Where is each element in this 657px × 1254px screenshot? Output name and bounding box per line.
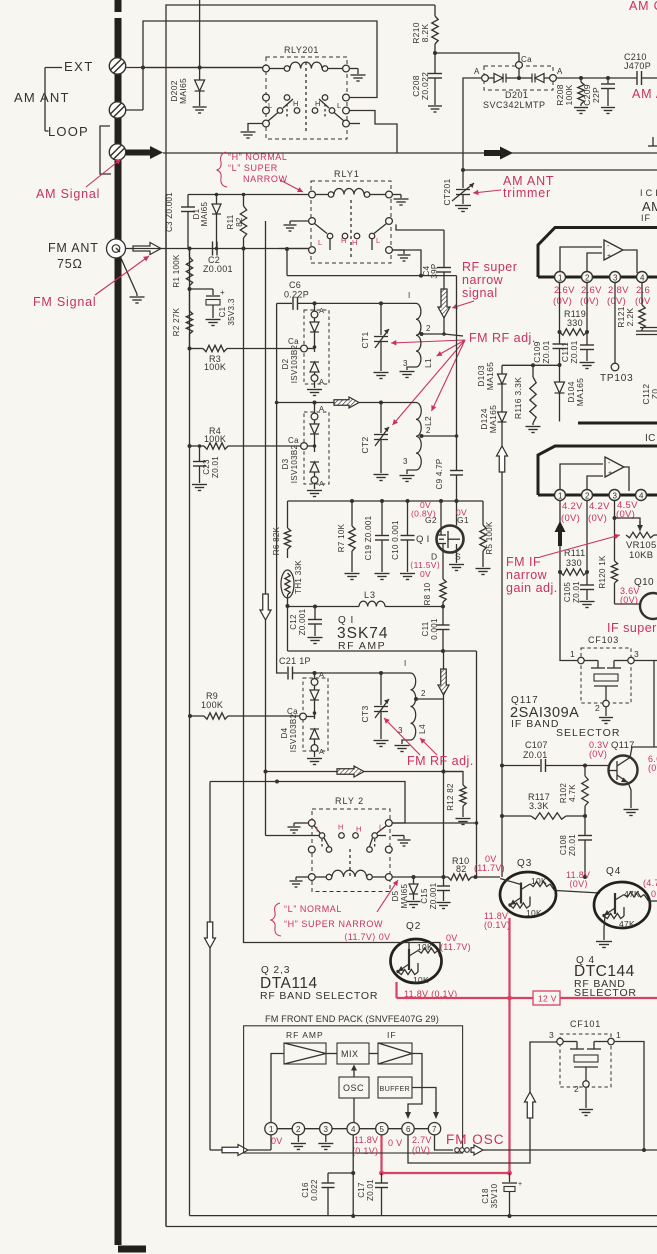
svg-text:(0V): (0V) bbox=[553, 296, 572, 307]
relay RLY201 left ground bbox=[248, 124, 263, 132]
wire C21 feed bbox=[277, 403, 287, 674]
svg-text:D3: D3 bbox=[281, 458, 290, 469]
svg-text:11.8V: 11.8V bbox=[354, 1135, 378, 1145]
relay RLY201 coil bbox=[263, 65, 270, 72]
AM signal thick arrow bbox=[126, 146, 163, 159]
wire EXT feed y=21 bbox=[143, 21, 377, 110]
FM OSC marker bbox=[455, 1148, 460, 1153]
svg-text:RF AMP: RF AMP bbox=[286, 1030, 324, 1040]
svg-text:5: 5 bbox=[380, 1125, 385, 1134]
svg-text:10KB: 10KB bbox=[629, 550, 653, 561]
FE pin 4 bbox=[347, 1123, 359, 1135]
red pointer CT3 bbox=[384, 718, 420, 755]
svg-text:FM ANT: FM ANT bbox=[48, 241, 99, 255]
svg-text:2: 2 bbox=[426, 324, 431, 333]
svg-text:8.2K: 8.2K bbox=[420, 24, 430, 43]
svg-text:100K: 100K bbox=[204, 362, 226, 372]
wire band select bus bbox=[244, 249, 441, 952]
junction R10 right bbox=[474, 875, 478, 879]
svg-text:IC: IC bbox=[645, 433, 656, 444]
FE pin 2 bbox=[292, 1123, 304, 1135]
red wire bottom run bbox=[382, 1172, 510, 1174]
svg-text:(0V): (0V) bbox=[412, 1145, 430, 1155]
junction R1/R2 bbox=[188, 287, 192, 291]
wire C4 to L1 tap bbox=[443, 318, 445, 334]
svg-text:10K: 10K bbox=[413, 975, 429, 985]
svg-text:RLY201: RLY201 bbox=[284, 45, 319, 55]
wire IF line down bbox=[501, 446, 503, 877]
svg-text:3: 3 bbox=[324, 1125, 329, 1134]
FE pin 6 bbox=[402, 1123, 414, 1135]
junction R111 right bbox=[585, 570, 589, 574]
wire pin1 to RF amp bbox=[271, 1054, 284, 1123]
varactor D2 box bbox=[304, 310, 329, 384]
junction G1/C9 bbox=[455, 499, 459, 503]
coil right edge (clipped) bbox=[636, 330, 657, 332]
potentiometer VR105 bbox=[626, 532, 654, 538]
svg-text:AM Signal: AM Signal bbox=[36, 187, 100, 201]
svg-text:L: L bbox=[376, 236, 380, 245]
svg-text:D4: D4 bbox=[280, 727, 289, 738]
svg-text:L: L bbox=[316, 825, 320, 834]
svg-text:7: 7 bbox=[432, 1125, 437, 1134]
resistor R210 bbox=[434, 5, 436, 16]
svg-text:CF103: CF103 bbox=[588, 635, 619, 645]
svg-text:2: 2 bbox=[426, 426, 431, 435]
trimmer CT1 bbox=[380, 303, 382, 335]
junction C19 top bbox=[380, 499, 384, 503]
resistor R208 bbox=[580, 78, 582, 82]
inductor L1 bbox=[416, 303, 421, 367]
wire C6 to L1 bbox=[298, 302, 416, 304]
svg-text:Z0.01: Z0.01 bbox=[523, 750, 548, 760]
wire x188 upper bbox=[189, 249, 191, 447]
inductor L4 ground bbox=[402, 740, 411, 744]
inductor L1 ground bbox=[407, 367, 416, 370]
svg-text:0 V: 0 V bbox=[388, 1138, 402, 1148]
IC102 opamp bbox=[560, 464, 603, 490]
IC102 pin 1 bbox=[555, 490, 566, 501]
FM signal outlined arrow bbox=[133, 243, 161, 255]
svg-text:(0V): (0V) bbox=[588, 513, 607, 524]
varactor D3 bbox=[311, 413, 318, 420]
wire MIX to IF bbox=[369, 1053, 378, 1055]
svg-text:Q4: Q4 bbox=[606, 866, 621, 877]
svg-text:4: 4 bbox=[351, 1125, 356, 1134]
svg-text:IF: IF bbox=[641, 213, 651, 223]
svg-text:0.001: 0.001 bbox=[430, 618, 439, 640]
terminal LOOP bbox=[109, 144, 125, 160]
wire R4 bbox=[188, 444, 192, 448]
capacitor C6 bbox=[292, 297, 294, 310]
resistor R120 bbox=[614, 518, 616, 561]
wire FM line bbox=[126, 248, 312, 250]
svg-text:C9 4.7P: C9 4.7P bbox=[435, 458, 444, 489]
svg-text:2: 2 bbox=[296, 1125, 301, 1134]
trimmer CT201 bbox=[462, 170, 464, 188]
junction CT201 node bbox=[461, 168, 465, 172]
svg-text:H: H bbox=[356, 825, 362, 834]
wire VR105 link bbox=[615, 518, 641, 528]
capacitor C107 bbox=[540, 759, 542, 772]
svg-text:I C I: I C I bbox=[640, 188, 657, 198]
svg-text:C1: C1 bbox=[218, 306, 227, 317]
varactor D4 box bbox=[303, 678, 328, 751]
varactor D4 ground bbox=[314, 751, 316, 757]
svg-text:(0V: (0V bbox=[648, 763, 657, 773]
trimmer CT2 bbox=[380, 403, 382, 434]
junction L2 tap bbox=[420, 434, 424, 438]
red wire 12V bus bbox=[397, 997, 657, 999]
wire into pin1 bbox=[210, 1149, 222, 1151]
capacitor C15 bbox=[443, 877, 445, 886]
wire CF103-3 right bbox=[634, 660, 657, 662]
svg-text:10K: 10K bbox=[417, 942, 433, 952]
junction R208 top bbox=[579, 76, 583, 80]
svg-text:2: 2 bbox=[574, 1084, 579, 1094]
svg-text:C23: C23 bbox=[202, 459, 211, 475]
relay RLY201 link line bbox=[305, 62, 307, 134]
IC101 opamp bbox=[560, 247, 602, 272]
svg-text:+: + bbox=[518, 1181, 522, 1188]
svg-text:NARROW: NARROW bbox=[243, 174, 288, 184]
svg-text:IF BAND: IF BAND bbox=[511, 718, 559, 730]
svg-text:100K: 100K bbox=[204, 434, 226, 444]
wire IC101 pin3 down bbox=[614, 283, 616, 364]
capacitor C208 bbox=[434, 53, 436, 73]
svg-text:AM AN: AM AN bbox=[632, 87, 657, 101]
resistor R8 bbox=[440, 579, 446, 602]
wire Q4 out right bbox=[649, 900, 657, 902]
wire narrow path vertical bbox=[265, 221, 267, 594]
wire pin4 down bbox=[352, 1135, 354, 1216]
outlined arrow CF101 up bbox=[525, 1092, 536, 1118]
svg-text:SVC342LMTP: SVC342LMTP bbox=[483, 100, 546, 110]
wire gate bus bbox=[288, 500, 484, 502]
svg-text:6: 6 bbox=[406, 1125, 411, 1134]
svg-text:12 V: 12 V bbox=[538, 994, 557, 1004]
svg-text:1: 1 bbox=[269, 1125, 274, 1134]
junction C10 top bbox=[406, 499, 410, 503]
svg-text:2: 2 bbox=[585, 274, 590, 283]
wire L2 feed 2 bbox=[359, 402, 416, 404]
svg-text:SELECTOR: SELECTOR bbox=[556, 727, 620, 739]
svg-text:MAI65: MAI65 bbox=[400, 883, 409, 908]
svg-text:1: 1 bbox=[558, 274, 563, 283]
wire RLY201 coil left bbox=[146, 67, 263, 69]
FE pin 3 bbox=[320, 1123, 332, 1135]
svg-text:(0V): (0V) bbox=[607, 296, 626, 307]
capacitor C1 (electrolytic) bbox=[190, 288, 214, 290]
junction L1 tap bbox=[420, 332, 424, 336]
svg-text:S: S bbox=[455, 552, 461, 562]
red 12V box bbox=[533, 991, 560, 1005]
svg-text:FM RF adj.: FM RF adj. bbox=[407, 754, 474, 768]
svg-text:Z0.001: Z0.001 bbox=[429, 882, 438, 909]
red wire Q2 emitter bbox=[395, 982, 397, 998]
svg-text:MA165: MA165 bbox=[485, 362, 495, 390]
transistor Q101 (clipped) bbox=[640, 593, 657, 619]
junction C11 bottom bbox=[441, 649, 445, 653]
filter CF103 bbox=[578, 657, 584, 663]
svg-text:47K: 47K bbox=[624, 889, 640, 899]
svg-text:trimmer: trimmer bbox=[503, 186, 551, 200]
svg-text:330: 330 bbox=[566, 558, 582, 568]
svg-text:3.3K: 3.3K bbox=[529, 801, 549, 811]
wire Q3 base bbox=[500, 879, 521, 885]
svg-text:4: 4 bbox=[639, 492, 644, 501]
junction R8 bottom bbox=[441, 605, 445, 609]
svg-text:Ca: Ca bbox=[288, 337, 299, 346]
relay RLY2 right contact out bbox=[392, 835, 404, 837]
svg-text:FM FRONT END PACK (SNVFE407G 2: FM FRONT END PACK (SNVFE407G 29) bbox=[265, 1014, 439, 1024]
resistor R111 bbox=[560, 569, 587, 575]
wire IC102 pin2 down bbox=[586, 501, 588, 586]
svg-text:1: 1 bbox=[570, 649, 575, 659]
svg-text:RF super: RF super bbox=[462, 260, 517, 274]
svg-text:10K: 10K bbox=[526, 908, 542, 918]
svg-text:ISV103B2: ISV103B2 bbox=[290, 345, 299, 384]
svg-text:narrow: narrow bbox=[462, 273, 504, 287]
svg-text:3: 3 bbox=[613, 274, 618, 283]
ground pin3 bbox=[325, 1135, 327, 1142]
filter CF101 bbox=[557, 1038, 563, 1044]
red pointer AM signal bbox=[86, 159, 121, 187]
transistor Q4 bbox=[594, 882, 650, 928]
svg-text:Z0.01: Z0.01 bbox=[541, 340, 551, 363]
junction CT1 top bbox=[379, 301, 383, 305]
resistor R1 bbox=[189, 249, 191, 258]
corner glyph right edge bbox=[652, 137, 654, 146]
varactor D3 box bbox=[304, 412, 329, 484]
svg-text:L2: L2 bbox=[423, 416, 433, 426]
svg-text:CF101: CF101 bbox=[570, 1019, 601, 1029]
capacitor C9 bbox=[456, 436, 458, 470]
svg-text:H: H bbox=[315, 99, 321, 108]
wire mixer drop lower bbox=[443, 772, 445, 878]
svg-text:(0.1V): (0.1V) bbox=[352, 1146, 378, 1156]
svg-text:47K: 47K bbox=[619, 919, 635, 929]
junction D2 top bbox=[313, 301, 317, 305]
svg-text:2: 2 bbox=[595, 703, 600, 713]
svg-text:(0V): (0V) bbox=[561, 513, 580, 524]
red wire Q3 emitter drop bbox=[508, 918, 510, 1173]
svg-text:R8 10: R8 10 bbox=[423, 582, 432, 605]
resistor R119 bbox=[560, 329, 588, 335]
capacitor C4 bbox=[443, 230, 445, 267]
filter CF103 box bbox=[581, 648, 631, 703]
varactor D2 ground bbox=[314, 381, 316, 388]
svg-text:(11.7V): (11.7V) bbox=[474, 863, 505, 873]
wire IC101 pin1 down bbox=[559, 283, 561, 333]
testpoint TP103 bbox=[611, 363, 619, 371]
diode D202 bbox=[198, 66, 202, 70]
resistor R5 bbox=[482, 501, 484, 525]
svg-text:L1: L1 bbox=[423, 358, 433, 368]
junction FM/R1 bbox=[188, 247, 192, 251]
svg-text:2.2K: 2.2K bbox=[625, 308, 635, 327]
svg-text:CT2: CT2 bbox=[360, 437, 370, 454]
outlined arrow into pin1 bbox=[222, 1145, 248, 1156]
wire FM into RLY1 bbox=[279, 248, 309, 250]
wire C107 row bbox=[502, 765, 540, 767]
svg-text:0V: 0V bbox=[271, 1136, 283, 1146]
svg-text:(0V): (0V) bbox=[580, 296, 599, 307]
svg-text:RLY 2: RLY 2 bbox=[335, 796, 364, 806]
wire top feed y=5 bbox=[166, 5, 435, 1227]
junction CT3 top bbox=[379, 671, 383, 675]
svg-text:D2: D2 bbox=[281, 358, 290, 369]
resistor R10 bbox=[448, 874, 472, 880]
svg-text:FM RF adj.: FM RF adj. bbox=[469, 331, 536, 345]
svg-text:MAI65: MAI65 bbox=[178, 78, 188, 104]
svg-text:RF BAND SELECTOR: RF BAND SELECTOR bbox=[260, 990, 378, 1002]
wire RLY201 lower contact stub bbox=[349, 123, 360, 125]
wire OSC to pin4 bbox=[353, 1098, 355, 1122]
svg-text:R7 10K: R7 10K bbox=[337, 523, 346, 552]
svg-text:82: 82 bbox=[235, 217, 244, 227]
resistor R102 bbox=[584, 766, 586, 777]
svg-text:(0.1V): (0.1V) bbox=[484, 920, 510, 930]
svg-text:0.22P: 0.22P bbox=[284, 290, 309, 300]
junction C108 top bbox=[583, 814, 587, 818]
diode D5 bbox=[413, 877, 415, 884]
svg-text:(4.7: (4.7 bbox=[643, 878, 657, 888]
relay RLY1 contacts bbox=[309, 218, 316, 225]
varactor D201 bbox=[482, 75, 489, 82]
red dashed pointer VR105 bbox=[540, 535, 620, 557]
junction FM/R11 bbox=[242, 247, 246, 251]
capacitor C21 bbox=[287, 667, 289, 680]
svg-text:EXT: EXT bbox=[64, 59, 94, 74]
svg-text:Z0.01: Z0.01 bbox=[568, 834, 577, 856]
junction L4 tap bbox=[414, 697, 418, 701]
svg-text:35V3.3: 35V3.3 bbox=[227, 298, 236, 325]
svg-text:82: 82 bbox=[456, 864, 467, 874]
inductor L2 bbox=[416, 403, 421, 471]
wire AM signal line bbox=[163, 152, 657, 154]
svg-text:gain adj.: gain adj. bbox=[506, 581, 558, 595]
svg-text:MIX: MIX bbox=[341, 1049, 359, 1059]
wire C4 from relay bbox=[396, 224, 444, 230]
junction C109 bottom bbox=[558, 363, 562, 367]
resistor R117 bbox=[500, 814, 504, 818]
junction L2 feed bbox=[275, 401, 279, 405]
AM loop antenna bar (main) bbox=[115, 160, 122, 1245]
wire RLY1 normal out bbox=[392, 250, 421, 276]
wire IC102 pin1 down bbox=[559, 501, 561, 573]
svg-text:H: H bbox=[341, 236, 347, 245]
wire C107 to Q117 bbox=[546, 765, 609, 767]
svg-text:MA165: MA165 bbox=[488, 405, 498, 433]
svg-text:(0V): (0V) bbox=[589, 749, 607, 759]
FM front end box bbox=[244, 1026, 463, 1153]
svg-text:R116 3.3K: R116 3.3K bbox=[513, 377, 523, 419]
wire relay-to-AM drop bbox=[349, 111, 397, 154]
svg-text:OSC: OSC bbox=[343, 1083, 364, 1093]
svg-text:R1 100K: R1 100K bbox=[172, 254, 181, 288]
relay RLY2 contacts bbox=[308, 820, 315, 827]
terminal EXT bbox=[109, 58, 125, 74]
svg-text:L3: L3 bbox=[364, 590, 376, 600]
svg-text:Q117: Q117 bbox=[611, 740, 635, 751]
svg-text:+: + bbox=[220, 288, 225, 297]
junction TH1 bottom bbox=[286, 604, 290, 608]
svg-text:-: - bbox=[608, 460, 611, 467]
svg-text:C108: C108 bbox=[559, 835, 568, 856]
wire bottom rail 1 bbox=[189, 446, 191, 1216]
wire RF amp to MIX bbox=[326, 1053, 337, 1055]
wire R111 to CF103 bbox=[560, 572, 578, 661]
relay RLY1 left stub bbox=[290, 220, 309, 222]
svg-text:H: H bbox=[352, 238, 358, 247]
transistor Q2 bbox=[391, 939, 442, 983]
FE pin 1 bbox=[265, 1123, 277, 1135]
junction C108 bottom bbox=[583, 875, 587, 879]
svg-text:A: A bbox=[319, 377, 324, 386]
black arrow up pin1 bbox=[555, 521, 566, 546]
svg-text:L: L bbox=[337, 101, 341, 110]
IC102 pin 3 bbox=[609, 490, 620, 501]
svg-text:AM: AM bbox=[642, 199, 657, 214]
junction R210/C208 bbox=[433, 51, 437, 55]
svg-text:0: 0 bbox=[651, 889, 656, 899]
resistor R121 bbox=[641, 283, 643, 306]
IC101 pin 2 bbox=[582, 272, 593, 283]
capacitor C105 bbox=[580, 584, 594, 586]
svg-text:(0V): (0V) bbox=[620, 595, 638, 605]
wire TH1 node down bbox=[287, 607, 289, 652]
svg-text:R5 100K: R5 100K bbox=[485, 521, 494, 555]
svg-text:(11.7V): (11.7V) bbox=[440, 942, 471, 952]
relay RLY2 coil ground bbox=[296, 876, 308, 878]
junction D4 top bbox=[313, 671, 317, 675]
svg-text:⟨0V⟩: ⟨0V⟩ bbox=[569, 879, 588, 889]
relay RLY1 coil ground bbox=[392, 194, 401, 196]
svg-text:35V10: 35V10 bbox=[490, 1183, 499, 1208]
FM connector bbox=[107, 239, 126, 258]
wire EXT row bbox=[125, 67, 266, 69]
capacitor C19 bbox=[381, 501, 383, 535]
svg-text:J470P: J470P bbox=[624, 61, 651, 71]
relay RLY1 coil bbox=[309, 191, 316, 198]
wire R3 bbox=[188, 347, 192, 351]
varactor D3 ground bbox=[314, 483, 316, 489]
resistor R12 bbox=[444, 772, 464, 786]
svg-text:TH1 33K: TH1 33K bbox=[294, 560, 303, 594]
svg-text:Z0.01: Z0.01 bbox=[572, 581, 581, 603]
svg-text:+: + bbox=[608, 470, 612, 477]
junction G2 bbox=[439, 499, 443, 503]
svg-text:A: A bbox=[319, 479, 324, 488]
transistor Q117 bbox=[609, 756, 638, 785]
wire IC101 pin2 down bbox=[586, 283, 588, 346]
svg-text:L: L bbox=[318, 238, 322, 247]
svg-text:10K: 10K bbox=[531, 876, 547, 886]
svg-text:D201: D201 bbox=[505, 90, 529, 100]
block RF amp bbox=[284, 1043, 326, 1064]
svg-text:Q3: Q3 bbox=[517, 858, 532, 869]
capacitor C16 bbox=[328, 1172, 353, 1174]
IC101 pin 3 bbox=[610, 272, 621, 283]
wire AM ANT to bus bbox=[125, 109, 143, 111]
wire L2 feed bbox=[277, 303, 334, 402]
wire C21 to L4 bbox=[293, 672, 411, 674]
svg-text:Z0.01: Z0.01 bbox=[211, 456, 220, 478]
svg-text:3: 3 bbox=[403, 457, 408, 466]
svg-text:1: 1 bbox=[616, 1030, 621, 1040]
svg-text:“H” NORMAL: “H” NORMAL bbox=[228, 152, 288, 162]
